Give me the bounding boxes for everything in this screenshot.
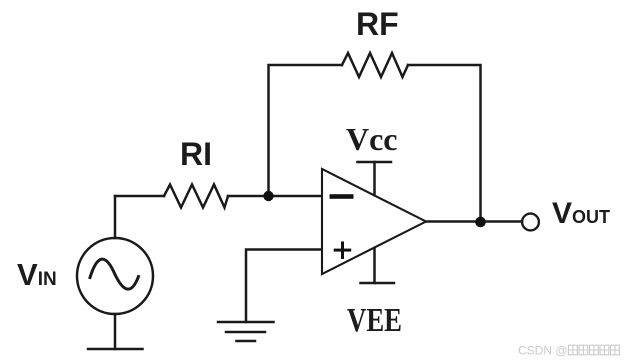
resistor RF [342, 53, 408, 77]
VEE rail [373, 248, 376, 283]
wire feedback top left segment [269, 65, 343, 196]
watermark CSDN [518, 344, 619, 358]
wire source bottom [114, 314, 117, 349]
resistor RI [164, 185, 228, 208]
svg-text:Vcc: Vcc [346, 121, 398, 157]
junction node inverting input [263, 191, 273, 201]
sine symbol [90, 259, 139, 289]
op-amp plus sign [334, 249, 352, 252]
svg-text:VEE: VEE [347, 302, 402, 339]
wire RI to inverting input [228, 195, 322, 198]
source VIN circle [77, 238, 153, 314]
svg-text:RI: RI [180, 136, 212, 172]
Vcc rail [373, 162, 376, 195]
op-amp U1 [322, 169, 426, 274]
svg-text:CSDN @: CSDN @ [518, 344, 568, 358]
wire input left segment [115, 195, 164, 198]
op-amp minus sign [330, 194, 354, 199]
wire feedback top right segment [408, 65, 481, 222]
wire non-inverting input [246, 250, 322, 323]
ground [218, 321, 274, 324]
terminal VOUT circle [522, 214, 539, 231]
wire source drop [114, 196, 117, 238]
junction node output [475, 217, 486, 228]
source bottom bar [88, 348, 143, 351]
svg-text:RF: RF [356, 6, 399, 42]
wire output [425, 220, 522, 223]
